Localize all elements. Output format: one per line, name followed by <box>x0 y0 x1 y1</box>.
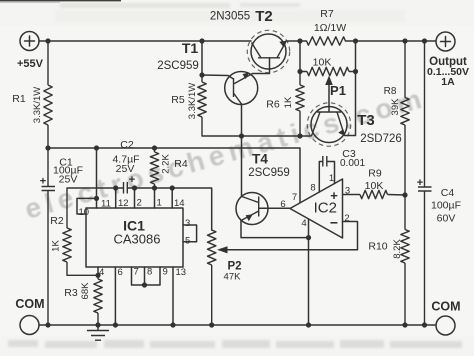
wire pin6 to ground rail <box>114 267 116 325</box>
svg-text:25V: 25V <box>116 163 135 175</box>
svg-text:4: 4 <box>99 267 104 278</box>
svg-text:1K: 1K <box>51 240 62 252</box>
svg-text:68K: 68K <box>80 282 91 300</box>
resistor R8 <box>384 41 410 195</box>
resistor R7 <box>307 8 347 45</box>
svg-text:100µF: 100µF <box>431 200 461 212</box>
potentiometer P2 <box>208 230 242 325</box>
svg-text:39K: 39K <box>390 98 401 116</box>
node R10 bottom <box>402 322 407 327</box>
node pin14 <box>170 185 175 190</box>
svg-text:−: − <box>330 215 338 231</box>
node pin2 <box>132 185 137 190</box>
wire to T1 <box>202 74 228 77</box>
svg-text:COM: COM <box>15 297 44 311</box>
svg-text:2: 2 <box>137 198 142 209</box>
svg-text:3.3K/1W: 3.3K/1W <box>187 83 198 119</box>
node P2 bottom <box>209 322 214 327</box>
svg-text:6: 6 <box>280 199 285 210</box>
svg-text:10: 10 <box>79 207 90 218</box>
svg-text:1K: 1K <box>283 96 294 108</box>
svg-text:1: 1 <box>157 198 162 209</box>
svg-text:8: 8 <box>147 267 152 278</box>
terminal COM right <box>431 300 460 336</box>
svg-text:0.001: 0.001 <box>340 158 365 169</box>
svg-text:R9: R9 <box>368 168 382 180</box>
terminal Output <box>427 32 469 88</box>
svg-text:60V: 60V <box>437 213 456 225</box>
svg-text:R2: R2 <box>50 215 64 227</box>
svg-text:47K: 47K <box>224 272 242 283</box>
svg-text:COM: COM <box>431 300 460 314</box>
svg-text:+: + <box>129 174 135 186</box>
transistor T1 2SC959 <box>157 40 257 105</box>
svg-text:2.2K: 2.2K <box>161 154 172 174</box>
resistor R2 <box>50 188 98 275</box>
wire T2 emitter to R7 <box>286 40 307 42</box>
svg-text:C4: C4 <box>441 187 455 199</box>
resistor R10 <box>368 195 409 325</box>
svg-text:7: 7 <box>134 267 139 278</box>
wire pin4 stub <box>97 267 99 275</box>
svg-text:13: 13 <box>176 267 187 278</box>
wire pin4 column <box>308 219 310 325</box>
svg-text:1Ω/1W: 1Ω/1W <box>314 22 346 34</box>
svg-text:2SC959: 2SC959 <box>157 60 199 72</box>
wire pin12 stub <box>115 188 117 208</box>
wire T4 emitter to pin4 node <box>241 221 309 238</box>
wire pin14 stub <box>171 188 173 208</box>
transistor T4 2SC959 <box>236 152 290 225</box>
ground <box>87 325 109 340</box>
svg-text:R3: R3 <box>64 287 78 299</box>
resistor R9 <box>343 168 406 199</box>
node C4 bottom <box>422 322 427 327</box>
op-amp IC2 <box>280 173 350 238</box>
wire top rail left <box>39 40 251 42</box>
node pin10/pin11 junction <box>94 196 99 201</box>
wire P2 wiper to IC2 pin 2 <box>222 222 358 250</box>
scan black mark top edge <box>0 0 121 1</box>
svg-text:25V: 25V <box>59 174 78 186</box>
node C4 top <box>422 38 427 43</box>
svg-text:9: 9 <box>163 267 168 278</box>
svg-text:+: + <box>417 177 423 189</box>
node pin13 bottom <box>170 322 175 327</box>
svg-text:R5: R5 <box>171 94 185 106</box>
svg-text:1A: 1A <box>441 76 455 88</box>
svg-text:11: 11 <box>101 199 111 210</box>
wire pin8 stub <box>318 162 320 193</box>
svg-text:2SD726: 2SD726 <box>360 133 402 145</box>
svg-text:8.2K: 8.2K <box>392 239 403 259</box>
wire top rail right <box>346 40 437 42</box>
terminal +55V input <box>17 32 44 71</box>
svg-text:6: 6 <box>118 267 123 278</box>
svg-text:R8: R8 <box>384 86 397 97</box>
wire pin 11 column <box>96 148 98 208</box>
svg-text:T3: T3 <box>357 112 375 129</box>
capacitor C2 <box>112 139 139 194</box>
node R8/R9/R10 <box>402 192 407 197</box>
resistor R4 <box>150 148 188 188</box>
node pin8 bracket <box>142 282 147 287</box>
svg-text:5: 5 <box>185 236 190 247</box>
svg-text:R4: R4 <box>174 158 188 170</box>
capacitor C3 <box>319 148 365 169</box>
node pin11 column on rail B <box>94 145 99 150</box>
wire T1 collector column <box>201 41 203 75</box>
svg-text:CA3086: CA3086 <box>114 232 161 247</box>
svg-text:4: 4 <box>301 218 306 229</box>
node pin4 bottom rail <box>306 322 311 327</box>
svg-text:+55V: +55V <box>17 58 44 70</box>
node pin6 bottom <box>113 322 118 327</box>
wire T4 base to IC2 output <box>259 207 290 209</box>
wire pin13 to ground rail <box>172 267 174 325</box>
svg-text:10K: 10K <box>313 57 332 69</box>
node pin4/R2/R3 <box>95 273 100 278</box>
watermark electroschematics.com <box>21 82 428 225</box>
wire pin 10 loop <box>77 198 97 214</box>
node C1 bottom <box>45 322 50 327</box>
node R3/ground <box>95 322 100 327</box>
svg-text:T2: T2 <box>255 8 273 25</box>
wire pins 7-8-9 bracket <box>132 267 161 285</box>
wire pin2 stub <box>134 188 136 208</box>
capacitor C1 <box>40 148 83 325</box>
svg-text:8: 8 <box>310 183 315 194</box>
resistor R6 <box>266 72 304 137</box>
node P1 left column top <box>297 38 302 43</box>
node R6 bottom on wire A <box>297 133 302 138</box>
transistor T2 2N3055 <box>210 8 290 73</box>
svg-text:R6: R6 <box>266 99 280 111</box>
svg-text:10K: 10K <box>365 180 384 192</box>
svg-text:14: 14 <box>174 198 185 209</box>
svg-text:3: 3 <box>185 218 190 229</box>
svg-text:T4: T4 <box>252 152 268 167</box>
capacitor C4 <box>417 41 461 325</box>
IC1 CA3086 <box>79 198 191 279</box>
wire T2 base L <box>253 58 270 74</box>
svg-text:R7: R7 <box>320 8 334 20</box>
wire pin1 stub <box>154 188 156 208</box>
svg-text:1: 1 <box>329 173 334 184</box>
svg-text:12: 12 <box>118 198 129 209</box>
svg-text:7: 7 <box>292 192 297 203</box>
bottom rail <box>39 324 436 326</box>
svg-text:R1: R1 <box>12 93 26 105</box>
svg-text:T1: T1 <box>182 40 199 56</box>
node R4 top on rail B <box>152 145 157 150</box>
svg-text:2SC959: 2SC959 <box>248 167 290 179</box>
resistor R1 <box>12 41 52 148</box>
node T1 base/R5 <box>199 72 204 77</box>
svg-text:2N3055: 2N3055 <box>210 11 250 23</box>
node pin1/R4 <box>152 185 157 190</box>
svg-text:2: 2 <box>344 213 349 224</box>
svg-text:3: 3 <box>345 186 350 197</box>
transistor T3 2SD726 <box>307 103 401 146</box>
node top rail / R1 <box>45 38 50 43</box>
wire P1 wiper to T3 base <box>328 80 330 112</box>
node wire A / T1 emitter <box>239 133 244 138</box>
wire pins 3-5 bracket <box>183 225 197 242</box>
svg-text:3.3K/1W: 3.3K/1W <box>32 87 43 123</box>
node T1/R5 top rail <box>199 38 204 43</box>
svg-text:C2: C2 <box>120 139 134 151</box>
wire T1 emitter / T4 collector column <box>241 104 243 196</box>
node rail-B left <box>45 145 50 150</box>
potentiometer P1 <box>297 41 358 136</box>
resistor R3 <box>64 275 102 325</box>
wire pin1 stub <box>334 162 336 184</box>
scan smudge band top <box>55 10 405 22</box>
wire 188-row with C2 <box>67 187 123 189</box>
svg-text:+: + <box>40 176 46 188</box>
resistor R5 <box>171 75 311 136</box>
node R8 top <box>402 38 407 43</box>
node pin12 <box>113 185 118 190</box>
svg-text:P1: P1 <box>330 83 346 98</box>
svg-text:R10: R10 <box>368 241 387 253</box>
wire rail B (C2 rail) <box>48 148 300 203</box>
node pin4/T4 emitter <box>306 235 311 240</box>
scan smudge band bottom (blurred text remnants) <box>8 340 462 348</box>
terminal COM left <box>15 297 44 335</box>
node R7 right / P1 right <box>353 38 358 43</box>
svg-text:+: + <box>330 188 338 203</box>
